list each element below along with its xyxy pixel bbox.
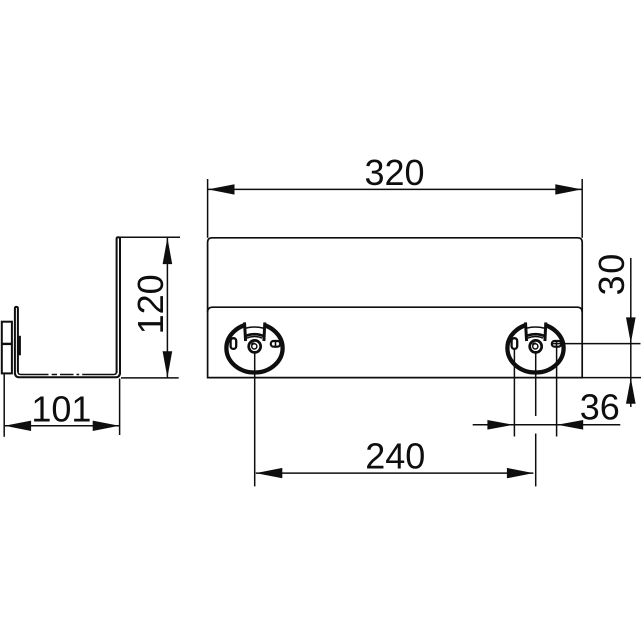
svg-text:320: 320 [364,152,424,193]
svg-text:30: 30 [591,252,632,295]
svg-text:240: 240 [365,436,425,477]
svg-text:36: 36 [580,387,620,428]
svg-text:101: 101 [31,388,91,429]
svg-text:120: 120 [130,274,171,334]
